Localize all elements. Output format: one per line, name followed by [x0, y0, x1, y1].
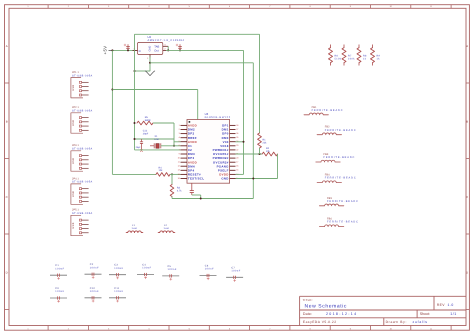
- svg-text:Date:: Date:: [303, 312, 312, 316]
- svg-text:Sheet:: Sheet:: [420, 312, 430, 316]
- wire v2 rail down: [252, 63, 254, 199]
- svg-text:100nF: 100nF: [114, 290, 123, 293]
- junction y139: [134, 138, 136, 140]
- junction crystal right: [173, 145, 175, 147]
- capacitor C9 100nF: [50, 287, 67, 302]
- junction gnd-left rail: [134, 70, 136, 72]
- svg-text:100nF: 100nF: [90, 290, 99, 293]
- junction at +5V column: [111, 49, 113, 51]
- capacitor C11 100nF: [109, 287, 126, 302]
- IC U3 right pins with labels and numbers: [213, 124, 240, 181]
- svg-text:Drawn By:: Drawn By:: [386, 320, 408, 324]
- wire C8 elbow to rail: [192, 194, 201, 196]
- svg-text:100nF: 100nF: [55, 267, 64, 270]
- junction GND row at v2: [252, 178, 254, 180]
- svg-text:100nF: 100nF: [55, 290, 64, 293]
- capacitor C2 100nF: [85, 263, 102, 278]
- U2 pin 2 stub Out: [163, 49, 167, 51]
- svg-text:zufalls: zufalls: [413, 320, 428, 324]
- regulator U2 body: [138, 42, 163, 54]
- wire bottom rail: [172, 198, 253, 200]
- ferrite bead FB6: [319, 218, 358, 227]
- svg-text:C: C: [6, 195, 8, 199]
- connector JP3.1 USB: [71, 144, 93, 171]
- svg-text:B: B: [6, 120, 8, 124]
- wire GND pin row: [236, 178, 278, 180]
- junction GND tee: [149, 62, 151, 64]
- svg-text:2018-12-14: 2018-12-14: [326, 312, 357, 316]
- wire R4 down to R3: [171, 174, 173, 184]
- svg-text:1k: 1k: [363, 57, 367, 60]
- svg-text:TITLE:: TITLE:: [303, 298, 313, 302]
- inductor L2 1uH: [158, 224, 175, 232]
- svg-text:FERRITE-BEADC: FERRITE-BEADC: [323, 156, 355, 159]
- U2 pin 4 stub TAB: [163, 45, 168, 47]
- capacitor C7 100nF: [226, 266, 243, 281]
- svg-text:100k: 100k: [348, 57, 355, 60]
- resistor R8 1k: [357, 45, 367, 66]
- junction R5 left: [134, 122, 136, 124]
- IC U3 left pins with labels and numbers: [178, 124, 205, 181]
- svg-text:New Schematic: New Schematic: [305, 304, 348, 310]
- svg-text:29pF: 29pF: [143, 132, 149, 135]
- capacitor C4 100nF: [137, 264, 154, 279]
- resistor R6 510k: [329, 45, 342, 66]
- wire +5V branch horizontal: [112, 89, 197, 91]
- wire X2 row: [135, 149, 181, 151]
- svg-text:29pF: 29pF: [136, 146, 142, 149]
- connector JP1.1 USB: [71, 71, 93, 98]
- border row ticks and letters: [5, 44, 470, 309]
- resistor R3: [170, 185, 174, 197]
- wire R5 right elbow: [153, 122, 174, 124]
- wire right rail v1 down: [243, 50, 245, 174]
- wire OVCUR1 pin to R1/R2: [236, 153, 263, 155]
- ferrite bead FB4: [317, 174, 356, 183]
- junction R4 right: [171, 173, 173, 175]
- IC U3 pin1 mark: [189, 121, 191, 123]
- svg-text:USB: USB: [72, 85, 75, 91]
- svg-text:ST-USB-005A: ST-USB-005A: [72, 212, 93, 215]
- capacitor C5 100nF: [162, 265, 179, 280]
- svg-text:510k: 510k: [335, 57, 342, 60]
- junction R1 bottom: [259, 153, 261, 155]
- connector JP2.1 USB: [71, 106, 93, 133]
- svg-text:GND: GND: [221, 177, 228, 181]
- wire loop top: [135, 33, 260, 35]
- svg-text:A: A: [466, 44, 468, 48]
- svg-text:GL850G-HHY22: GL850G-HHY22: [205, 116, 231, 119]
- resistor R4: [156, 173, 170, 177]
- svg-text:1uH: 1uH: [164, 227, 169, 230]
- svg-text:TEST/SCL: TEST/SCL: [188, 177, 204, 181]
- svg-text:ST-USB-005A: ST-USB-005A: [72, 74, 93, 77]
- junction +5V branch: [111, 89, 113, 91]
- svg-text:USB: USB: [72, 191, 75, 197]
- svg-text:100nF: 100nF: [231, 270, 240, 273]
- wire R4 to RESET pin: [170, 173, 181, 175]
- connector JP5.1 USB: [71, 209, 93, 236]
- wire +5V to U2 In: [112, 49, 138, 51]
- svg-text:A: A: [6, 44, 8, 48]
- svg-text:FERRITE-BEADC: FERRITE-BEADC: [327, 221, 359, 224]
- junction C14: [179, 49, 181, 51]
- svg-text:100nF: 100nF: [142, 267, 151, 270]
- capacitor C1 100nF: [50, 264, 67, 279]
- svg-text:100nF: 100nF: [114, 267, 123, 270]
- svg-text:FERRITE-BEADC: FERRITE-BEADC: [325, 129, 357, 132]
- svg-text:ST-USB-005A: ST-USB-005A: [72, 148, 93, 151]
- ferrite bead FB3: [316, 153, 355, 162]
- svg-text:USB: USB: [72, 158, 75, 164]
- svg-text:ST-USB-005A: ST-USB-005A: [72, 110, 93, 113]
- ferrite bead FB2: [317, 126, 356, 135]
- svg-text:100nF: 100nF: [90, 266, 99, 269]
- svg-text:1/1: 1/1: [450, 312, 457, 316]
- svg-text:Out: Out: [154, 50, 159, 53]
- capacitor C8: [191, 183, 193, 190]
- wire +5V to R4: [112, 173, 156, 175]
- svg-text:USB: USB: [72, 222, 75, 228]
- resistor R1: [258, 133, 262, 148]
- resistor R9 1k: [371, 45, 381, 66]
- wire loop right down to R1: [259, 34, 261, 133]
- svg-text:GND: GND: [149, 46, 152, 52]
- svg-text:AMS1117-1.8_C145484: AMS1117-1.8_C145484: [148, 39, 185, 42]
- resistor R5: [137, 121, 153, 125]
- ferrite bead FB1: [304, 106, 343, 115]
- svg-text:1k: 1k: [377, 57, 381, 60]
- capacitor C10 100nF: [85, 287, 102, 302]
- ferrite bead FB5: [319, 197, 358, 206]
- wire U2 TAB elbow to output: [167, 46, 169, 50]
- wire GND elbow left: [135, 70, 151, 72]
- resistor R7 100k: [342, 45, 355, 66]
- svg-text:D: D: [6, 271, 8, 275]
- svg-text:4.7k: 4.7k: [177, 189, 182, 192]
- inductor L1 1uH: [126, 224, 143, 232]
- capacitor C13 at U2 input: [127, 44, 129, 50]
- ground symbol: [145, 71, 155, 76]
- svg-text:100nF: 100nF: [168, 268, 177, 271]
- svg-text:USB: USB: [72, 120, 75, 126]
- wire +5V vertical rail: [111, 50, 113, 174]
- svg-text:REV: REV: [437, 303, 445, 307]
- title block frame: [300, 296, 466, 325]
- svg-text:C: C: [466, 195, 468, 199]
- svg-text:1.0: 1.0: [448, 303, 454, 307]
- svg-text:TAB: TAB: [154, 46, 159, 49]
- wire DVDD pin to v1 rail: [236, 173, 244, 175]
- wire R3 to bottom rail: [171, 197, 173, 199]
- wire R2 right down: [277, 154, 279, 179]
- crystal X1: [153, 143, 155, 148]
- IC U3 body: [187, 120, 230, 184]
- svg-text:ST-USB-005A: ST-USB-005A: [72, 181, 93, 184]
- wire crystal to X1 pin: [161, 145, 181, 147]
- svg-text:FERRITE-BEADC: FERRITE-BEADC: [325, 177, 357, 180]
- svg-text:D: D: [466, 271, 468, 275]
- capacitor C3 100nF: [109, 264, 126, 279]
- junction TAB-out: [167, 49, 169, 51]
- svg-text:1uH: 1uH: [132, 227, 137, 230]
- wire AVDD row into pin: [174, 141, 181, 143]
- svg-text:100nF: 100nF: [205, 268, 214, 271]
- U2 pin 1 stub GND: [149, 55, 151, 59]
- wire y139 row: [135, 138, 175, 140]
- junction V33: [243, 141, 245, 143]
- wire +5V branch into U3 top: [197, 90, 199, 120]
- svg-text:+5V: +5V: [103, 45, 108, 54]
- connector JP4.1 USB: [71, 177, 93, 204]
- wire left rail x134.5: [134, 34, 136, 150]
- capacitor C12: [141, 139, 143, 142]
- wire U2 out to right rail: [166, 49, 244, 51]
- resistor R2: [262, 152, 277, 156]
- junction C13: [127, 49, 129, 51]
- capacitor C6 100nF: [200, 265, 217, 280]
- svg-text:EasyEDA V5.8.22: EasyEDA V5.8.22: [303, 320, 337, 324]
- svg-text:12M: 12M: [154, 138, 158, 141]
- U2 pin 3 stub: [133, 49, 138, 51]
- svg-text:680R: 680R: [145, 119, 151, 122]
- wire V33 pin to v1 rail: [236, 141, 244, 143]
- wire R1 bottom lead: [259, 148, 261, 154]
- svg-text:FERRITE-BEADC: FERRITE-BEADC: [312, 109, 344, 112]
- junction bottom rail: [200, 198, 202, 200]
- wire GND to v2 rail: [150, 62, 253, 64]
- wire U2 GND down: [149, 57, 151, 72]
- svg-text:B: B: [466, 120, 468, 124]
- svg-text:FERRITE-BEADC: FERRITE-BEADC: [327, 200, 359, 203]
- capacitor C14 at U2 output: [179, 44, 181, 50]
